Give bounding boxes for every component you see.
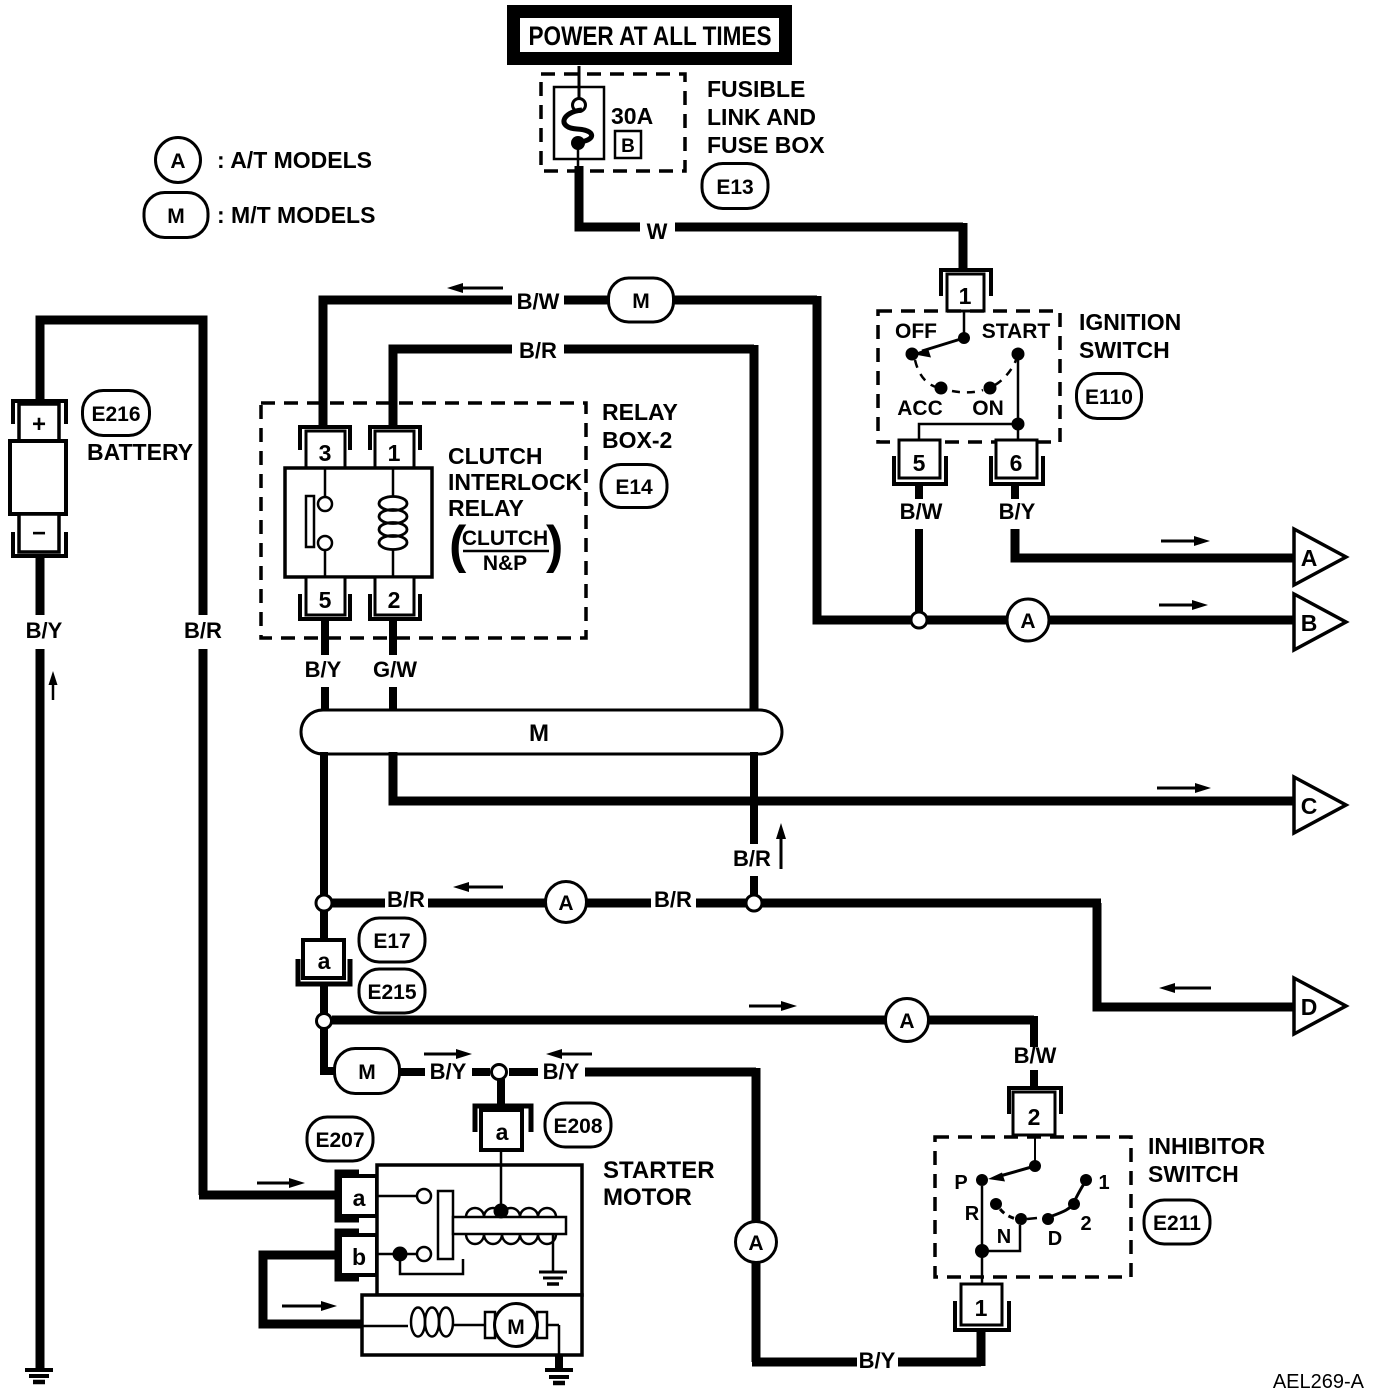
clutch N&P fraction: [449, 516, 563, 575]
clutch interlock relay caption: [448, 443, 583, 521]
A/T circle on return wire: [736, 1222, 777, 1263]
junction node left (E17 tap): [316, 895, 332, 911]
svg-text:E17: E17: [373, 930, 410, 953]
fuse letter B box: [615, 131, 641, 158]
svg-text:+: +: [32, 411, 46, 438]
arrow right on C wire: [1157, 783, 1211, 793]
ignition switch rotor contact: [912, 311, 970, 358]
svg-text:POWER AT ALL TIMES: POWER AT ALL TIMES: [529, 21, 772, 51]
svg-text:E110: E110: [1085, 386, 1133, 409]
arrow left on D wire: [1159, 983, 1211, 993]
solenoid feed dot from E208: [494, 1165, 509, 1219]
svg-text:30A: 30A: [611, 103, 653, 129]
solenoid core bar: [453, 1217, 566, 1234]
connector label E17: [359, 918, 425, 962]
connector E17/E215 a: [298, 911, 350, 1013]
M/T oval on starter branch: [335, 1049, 400, 1094]
starter connector b: [337, 1231, 377, 1279]
svg-text:SWITCH: SWITCH: [1148, 1161, 1239, 1187]
svg-text:INTERLOCK: INTERLOCK: [448, 469, 583, 495]
arrow left on B/R run: [453, 882, 503, 892]
inhibitor rotor contact: [988, 1137, 1041, 1182]
svg-text:A: A: [899, 1010, 914, 1033]
motor M armature: [485, 1304, 547, 1347]
ignition switch pin 1: [941, 270, 991, 311]
clutch interlock relay body: [285, 468, 432, 577]
svg-text:3: 3: [319, 440, 332, 466]
starter motor caption: [603, 1157, 715, 1211]
wire to connector D: [1097, 903, 1294, 1007]
svg-text:OFF: OFF: [895, 320, 937, 343]
svg-text:N: N: [997, 1226, 1011, 1248]
solenoid coil ground: [539, 1234, 567, 1284]
relay pin 3: [300, 427, 350, 468]
svg-text:R: R: [965, 1203, 980, 1225]
svg-text:G/W: G/W: [373, 657, 417, 682]
battery E216 symbol: [10, 401, 66, 556]
junction node at E208: [492, 1065, 507, 1080]
svg-text:A: A: [1020, 610, 1035, 633]
svg-text:1: 1: [959, 283, 972, 309]
svg-text:: M/T MODELS: : M/T MODELS: [217, 202, 375, 228]
svg-text:E211: E211: [1153, 1212, 1201, 1235]
connector label E13: [702, 164, 768, 209]
junction node right (B/R tap): [746, 895, 762, 911]
svg-text:A: A: [558, 892, 573, 915]
arrow up beside B/R: [776, 823, 786, 869]
fuse F (30A): [554, 66, 604, 171]
svg-text:MOTOR: MOTOR: [603, 1184, 692, 1211]
svg-text:N&P: N&P: [483, 552, 527, 575]
inhibitor P to pin1 feed: [975, 1186, 1020, 1285]
connector E208 a: [475, 1079, 531, 1166]
svg-text:RELAY: RELAY: [602, 399, 678, 425]
solenoid plunger: [438, 1191, 453, 1259]
M bus (M/T models harness): [301, 710, 782, 754]
svg-text:B/Y: B/Y: [543, 1059, 580, 1084]
arrow right on A wire: [1161, 536, 1210, 546]
wire B/R from relay pin 1: [393, 345, 754, 711]
svg-text:B/R: B/R: [184, 618, 222, 643]
arrow right on starter a feed: [257, 1178, 305, 1188]
svg-text:ON: ON: [972, 397, 1004, 420]
wire B/Y segments to E208 junction: [399, 1068, 756, 1076]
battery E216 top wire B/R feed: [40, 320, 338, 1195]
ignition switch caption: [1079, 309, 1181, 363]
ignition switch position dots: [906, 348, 1025, 395]
relay pin 5: [300, 577, 350, 619]
inhibitor position dots: [976, 1174, 1092, 1225]
svg-text:B/R: B/R: [733, 846, 771, 871]
junction node below E215: [317, 1014, 332, 1029]
wire B/W from relay pin 3 to ignition area: [323, 296, 912, 620]
fusible link and fuse box caption: [707, 76, 825, 158]
arrow left after B/Y: [546, 1049, 592, 1059]
svg-text:E207: E207: [315, 1129, 364, 1152]
svg-text:5: 5: [913, 450, 926, 476]
svg-text:1: 1: [1098, 1172, 1109, 1194]
svg-text:STARTER: STARTER: [603, 1157, 715, 1184]
svg-text:B/Y: B/Y: [305, 657, 342, 682]
svg-text:B: B: [1301, 610, 1318, 636]
legend A/T models: [156, 138, 373, 183]
svg-text:ACC: ACC: [897, 397, 943, 420]
solenoid coil windings: [466, 1208, 556, 1244]
connector label E215: [359, 969, 425, 1013]
wire into starter b: [263, 1255, 362, 1324]
svg-text:: A/T MODELS: : A/T MODELS: [217, 147, 372, 173]
ignition switch pin 6: [991, 440, 1043, 484]
svg-text:CLUTCH: CLUTCH: [462, 527, 548, 550]
wire B/W ignition pin5 down to junction: [915, 484, 923, 612]
wire A/T vertical to inhibitor pin1 return: [752, 1068, 981, 1366]
svg-text:IGNITION: IGNITION: [1079, 309, 1181, 335]
svg-text:B/Y: B/Y: [999, 499, 1036, 524]
wire G/W below bus to connector C: [393, 752, 1294, 801]
svg-text:SWITCH: SWITCH: [1079, 337, 1170, 363]
relay box-2 caption: [602, 399, 678, 453]
svg-text:E215: E215: [367, 981, 416, 1004]
arrow right on A/T run: [749, 1001, 797, 1011]
svg-text:2: 2: [1028, 1104, 1041, 1130]
wire W from fuse to ignition switch: [579, 166, 963, 268]
svg-text:E208: E208: [553, 1115, 602, 1138]
connector label E208: [545, 1103, 611, 1147]
wire B/Y relay pin5 to M bus: [321, 619, 329, 712]
A/T circle on run: [886, 999, 929, 1042]
connector triangle B: [1294, 594, 1346, 650]
svg-text:E216: E216: [91, 403, 140, 426]
svg-text:A: A: [1301, 545, 1318, 571]
svg-text:6: 6: [1010, 450, 1023, 476]
svg-text:P: P: [954, 1172, 967, 1194]
svg-text:A: A: [748, 1232, 763, 1255]
junction node on B wire: [911, 612, 927, 628]
ignition switch E110 dashed enclosure: [878, 311, 1060, 442]
svg-text:2: 2: [1080, 1213, 1091, 1235]
M/T oval on B/W wire: [609, 278, 674, 322]
svg-text:−: −: [32, 520, 46, 547]
ignition switch detent dashed arc: [915, 360, 1016, 392]
svg-text:AEL269-A: AEL269-A: [1273, 1371, 1365, 1390]
svg-text:INHIBITOR: INHIBITOR: [1148, 1133, 1266, 1159]
solenoid contact a: [377, 1189, 431, 1203]
svg-text:W: W: [647, 219, 668, 244]
svg-text:B/R: B/R: [387, 887, 425, 912]
svg-text:a: a: [353, 1185, 366, 1211]
legend M/T models: [144, 193, 375, 238]
A/T circle on B wire: [1007, 599, 1049, 641]
ignition switch position labels: [895, 320, 1050, 420]
motor ground: [545, 1325, 573, 1383]
wire to connector B: [927, 616, 1294, 625]
inhibitor switch E211 dashed enclosure: [935, 1137, 1131, 1277]
inhibitor switch pin 2: [1009, 1088, 1061, 1135]
svg-text:LINK AND: LINK AND: [707, 104, 816, 130]
svg-text:B/W: B/W: [1014, 1043, 1057, 1068]
wire B/Y battery negative to ground: [36, 554, 45, 1369]
relay switch contacts: [306, 468, 332, 577]
connector label E110: [1077, 374, 1142, 419]
ignition switch pin 5: [894, 440, 946, 484]
svg-text:B/R: B/R: [654, 887, 692, 912]
relay pin 2: [370, 577, 420, 619]
relay box-2 dashed enclosure: [261, 403, 586, 638]
wire B/Y ignition pin6 to connector A: [1015, 484, 1294, 558]
arrow up on battery ground wire: [49, 671, 58, 700]
svg-text:1: 1: [975, 1295, 988, 1321]
svg-text:D: D: [1301, 994, 1318, 1020]
svg-text:B/Y: B/Y: [430, 1059, 467, 1084]
svg-text:a: a: [318, 948, 331, 974]
svg-text:B/W: B/W: [517, 289, 560, 314]
svg-text:A: A: [170, 150, 185, 173]
wire B/R below bus to junction: [750, 752, 758, 895]
wire A/T run to inhibitor switch: [332, 1016, 1034, 1087]
starter motor solenoid housing: [377, 1165, 582, 1295]
svg-text:FUSE BOX: FUSE BOX: [707, 132, 825, 158]
svg-text:): ): [546, 516, 563, 574]
relay pin 1: [370, 427, 420, 468]
svg-text:M: M: [167, 205, 185, 228]
inhibitor position labels: [954, 1172, 1109, 1250]
svg-text:B/R: B/R: [519, 338, 557, 363]
connector label E211: [1144, 1200, 1210, 1244]
svg-text:b: b: [352, 1244, 366, 1270]
svg-text:M: M: [507, 1316, 525, 1339]
svg-text:BOX-2: BOX-2: [602, 427, 672, 453]
starter connector a: [337, 1172, 377, 1220]
svg-text:1: 1: [388, 440, 401, 466]
relay coil: [379, 468, 407, 577]
connector triangle A: [1294, 529, 1346, 585]
fusible link and fuse box E13 dashed enclosure: [541, 74, 685, 171]
connector triangle C: [1294, 777, 1346, 833]
inhibitor switch caption: [1148, 1133, 1266, 1187]
field coil: [362, 1308, 487, 1337]
arrow left on B/W wire: [447, 283, 503, 293]
ignition switch start feed to pins: [919, 354, 1025, 441]
svg-text:M: M: [632, 290, 650, 313]
wire B/R horizontal A/T run: [332, 899, 1101, 908]
arrow right before B/Y: [424, 1049, 472, 1059]
svg-text:2: 2: [388, 587, 401, 613]
inhibitor detent arcs: [1000, 1181, 1086, 1219]
svg-text:B: B: [621, 136, 635, 157]
inhibitor switch pin 1: [955, 1284, 1009, 1330]
ground (battery): [25, 1370, 53, 1382]
svg-text:BATTERY: BATTERY: [87, 439, 193, 465]
connector label E216: [83, 391, 150, 436]
svg-text:M: M: [529, 720, 549, 747]
wire G/W relay pin2 to M bus: [389, 619, 397, 712]
wire B/Y below bus to E17 junction: [320, 752, 328, 896]
arrow right on B wire: [1159, 600, 1208, 610]
arrow right on starter b feed: [282, 1301, 337, 1311]
svg-text:D: D: [1048, 1228, 1062, 1250]
svg-text:FUSIBLE: FUSIBLE: [707, 76, 805, 102]
svg-text:B/Y: B/Y: [26, 618, 63, 643]
svg-text:E13: E13: [716, 176, 753, 199]
connector label E207: [307, 1117, 373, 1161]
svg-text:B/W: B/W: [900, 499, 943, 524]
svg-text:C: C: [1301, 793, 1318, 819]
svg-text:a: a: [496, 1119, 509, 1145]
svg-text:5: 5: [319, 587, 332, 613]
svg-text:M: M: [358, 1061, 376, 1084]
svg-text:START: START: [982, 320, 1051, 343]
A/T circle on B/R run: [546, 882, 587, 923]
solenoid contact b row: [377, 1247, 463, 1275]
svg-text:B/Y: B/Y: [859, 1348, 896, 1373]
starter motor housing: [362, 1295, 582, 1355]
svg-text:CLUTCH: CLUTCH: [448, 443, 543, 469]
wire M/T branch to starter via E208: [324, 1028, 336, 1071]
connector label E14: [601, 465, 667, 508]
connector triangle D: [1294, 978, 1346, 1034]
power-at-all-times banner: [507, 5, 792, 65]
svg-text:E14: E14: [615, 476, 653, 499]
